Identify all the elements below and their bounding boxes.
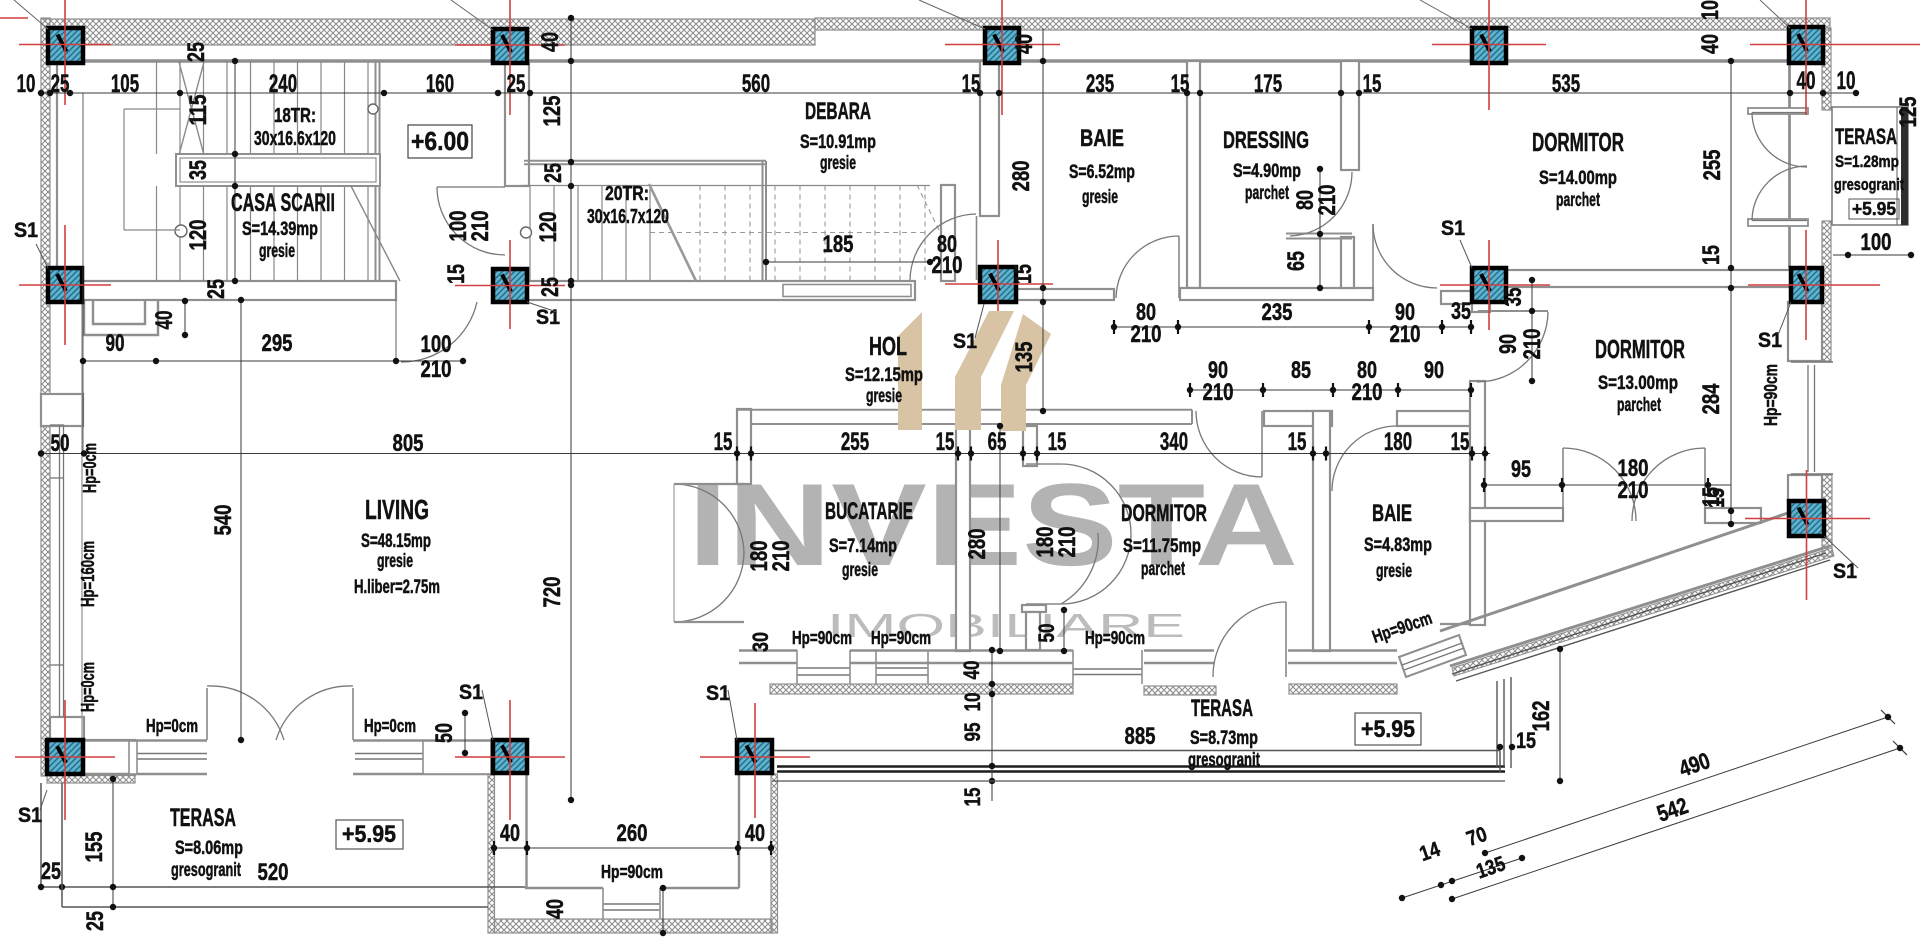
dim vertical 720 (570, 285, 572, 800)
svg-text:gresie: gresie (377, 551, 413, 572)
svg-text:30x16.6x120: 30x16.6x120 (254, 128, 336, 150)
door baie2 (90/210) (1332, 426, 1397, 491)
wall dressing closet upper (1341, 61, 1359, 170)
stair landing rectangles (176, 154, 380, 186)
svg-text:Hp=0cm: Hp=0cm (80, 443, 100, 493)
svg-text:Hp=90cm: Hp=90cm (1761, 364, 1781, 426)
door debara-hol (80/210) (976, 216, 978, 280)
svg-text:18TR:: 18TR: (274, 105, 316, 127)
column axis C6 (19, 284, 111, 286)
svg-text:535: 535 (1552, 70, 1580, 98)
svg-text:Hp=0cm: Hp=0cm (146, 716, 198, 736)
south wall bucatarie/dormitor row (739, 649, 797, 651)
svg-text:40: 40 (151, 311, 178, 330)
leader lines to top columns (14, 0, 48, 29)
wall stairwell 20TR east jog (762, 161, 764, 281)
column axis C12 (455, 756, 565, 758)
svg-text:Hp=160cm: Hp=160cm (78, 541, 98, 607)
svg-text:540: 540 (210, 505, 237, 536)
bay window sill (603, 903, 660, 905)
diagonal dim end ticks (1881, 710, 1895, 724)
dim vertical dressing chain (1319, 169, 1321, 288)
hatch south terrace wall 3 (1289, 684, 1397, 694)
svg-text:15: 15 (962, 70, 981, 98)
svg-text:Hp=0cm: Hp=0cm (364, 716, 416, 736)
svg-text:25: 25 (203, 279, 230, 299)
door casa scarii (100/210) (401, 302, 477, 362)
stair break line upper (179, 62, 204, 155)
column C13 (737, 740, 772, 773)
svg-text:162: 162 (1528, 701, 1555, 732)
wall baie/dressing divider (1187, 61, 1200, 288)
dim vertical dormitor13 door chain (1531, 280, 1533, 382)
dim diagonal 542 (1452, 748, 1900, 899)
svg-text:95: 95 (1511, 456, 1531, 483)
svg-text:S1: S1 (18, 804, 42, 827)
svg-text:40: 40 (1011, 34, 1038, 54)
svg-text:40: 40 (500, 820, 520, 847)
svg-text:520: 520 (258, 859, 289, 886)
svg-text:210: 210 (1519, 329, 1546, 360)
terrace lower thin line (772, 780, 1505, 782)
svg-text:35: 35 (185, 160, 212, 180)
svg-text:210: 210 (1314, 185, 1341, 216)
newel circle casa scarii (175, 225, 187, 237)
svg-text:20TR:: 20TR: (605, 183, 649, 205)
dim vertical 280 kitchen (999, 426, 1001, 651)
svg-text:155: 155 (81, 832, 108, 863)
dim line 185 (766, 261, 930, 263)
bay below living (488, 774, 495, 933)
wall dormitor west lower stub (1026, 612, 1040, 650)
svg-text:340: 340 (1160, 428, 1188, 456)
svg-text:210: 210 (768, 541, 795, 572)
wall baie south west part (1016, 289, 1114, 300)
svg-text:115: 115 (185, 95, 212, 126)
exterior wall top hatch west (41, 19, 815, 45)
svg-text:DORMITOR: DORMITOR (1532, 127, 1624, 157)
svg-text:S1: S1 (1441, 217, 1465, 240)
svg-text:100: 100 (1861, 229, 1892, 256)
svg-text:40: 40 (745, 820, 765, 847)
svg-text:Hp=90cm: Hp=90cm (601, 862, 663, 882)
svg-text:S1: S1 (14, 219, 38, 242)
wall stub west of column C9 (1441, 291, 1472, 304)
svg-text:gresie: gresie (842, 560, 878, 581)
svg-text:S=4.83mp: S=4.83mp (1364, 535, 1432, 556)
terrace floor edge (772, 750, 1500, 752)
svg-text:125: 125 (1895, 97, 1920, 128)
svg-text:TERASA: TERASA (170, 804, 236, 832)
svg-text:10: 10 (17, 70, 36, 98)
svg-text:50: 50 (431, 723, 458, 743)
level +6.00 (408, 125, 472, 158)
column C14 (1789, 501, 1824, 536)
column C4 (1472, 28, 1506, 63)
stair landing rail inner (783, 285, 911, 297)
dim vertical 40 bay (662, 888, 664, 933)
svg-text:25: 25 (537, 277, 564, 297)
svg-text:15: 15 (1698, 245, 1725, 265)
svg-text:gresie: gresie (820, 153, 856, 174)
dim line top row (41, 92, 1856, 94)
svg-text:10: 10 (960, 693, 985, 712)
wall stub below C9 (1472, 302, 1490, 312)
dim 15 terrace corner (1497, 744, 1503, 750)
wall stair south + landing (521, 281, 915, 300)
svg-text:BUCATARIE: BUCATARIE (825, 498, 913, 525)
svg-text:15: 15 (936, 428, 955, 456)
svg-text:S1: S1 (459, 681, 483, 704)
svg-text:S=8.06mp: S=8.06mp (175, 838, 243, 859)
column C11 (47, 740, 83, 774)
dim line baie/dressing row (1114, 326, 1471, 328)
svg-text:gresogranit: gresogranit (1834, 175, 1904, 194)
svg-text:280: 280 (1008, 161, 1035, 192)
stair 18TR risers (156, 61, 158, 154)
svg-text:125: 125 (539, 96, 566, 127)
svg-text:S=48.15mp: S=48.15mp (361, 531, 431, 552)
svg-text:gresogranit: gresogranit (171, 860, 241, 881)
dim line balcony row (1484, 484, 1731, 486)
svg-text:40: 40 (537, 32, 564, 52)
column axis C2 (455, 44, 565, 46)
window sill dormitor south (1073, 668, 1142, 670)
heavy edge line terrace (777, 765, 1505, 768)
svg-text:100: 100 (421, 331, 452, 358)
extension line x83 (82, 93, 84, 454)
dim diagonal 490 (1485, 717, 1888, 853)
svg-text:105: 105 (111, 70, 139, 98)
svg-text:720: 720 (539, 577, 566, 608)
left wall inner face upper (56, 59, 58, 281)
stair 20TR solid risers (529, 186, 531, 282)
door +6.00 room (100/210) (437, 187, 505, 255)
jog to diagonal window (1440, 623, 1470, 625)
svg-text:gresie: gresie (866, 386, 902, 407)
wall bucatarie west upper (737, 409, 751, 484)
terasa east double door (1752, 112, 1807, 114)
svg-text:135: 135 (1011, 342, 1038, 373)
svg-text:S=10.91mp: S=10.91mp (800, 132, 876, 153)
svg-text:S=14.00mp: S=14.00mp (1539, 168, 1617, 189)
dim vertical baie chain (1042, 28, 1044, 411)
wall hol south right part (1264, 411, 1332, 426)
svg-text:30x16.7x120: 30x16.7x120 (587, 206, 669, 228)
svg-text:DEBARA: DEBARA (805, 98, 871, 125)
svg-text:185: 185 (823, 231, 854, 258)
wall hol south long (737, 409, 1192, 411)
diagonal parapet hatch (1452, 548, 1834, 676)
svg-text:85: 85 (1291, 357, 1311, 384)
wall dormitor west upper stub (1023, 426, 1037, 466)
svg-text:BAIE: BAIE (1080, 125, 1124, 152)
living south wall lines (84, 739, 207, 741)
wall dressing south (1180, 288, 1373, 300)
column axis C11 (15, 756, 115, 758)
living west inner face (81, 300, 83, 740)
svg-text:175: 175 (1254, 70, 1282, 98)
svg-text:210: 210 (932, 252, 963, 279)
svg-text:15: 15 (443, 264, 470, 284)
window sill kitchen 1 (797, 667, 850, 669)
diagonal parapet top edge (1440, 513, 1788, 631)
svg-text:120: 120 (535, 212, 562, 243)
right wall solid above C14 (1788, 475, 1822, 501)
dim vertical 540 (240, 300, 242, 740)
door dormitor13 north (90/210) (1477, 312, 1548, 382)
wall pier sw (84, 740, 135, 775)
terrace sw outline (40, 783, 42, 887)
stair arrow diagonal (351, 186, 400, 281)
svg-text:15: 15 (1703, 488, 1730, 508)
column C12 (493, 740, 527, 773)
svg-text:35: 35 (1451, 298, 1471, 325)
wall dormitor13 south west part (1470, 508, 1563, 521)
column C1 (48, 28, 83, 63)
dim vertical 162 (1559, 649, 1561, 781)
svg-text:DRESSING: DRESSING (1223, 127, 1309, 154)
window sill kitchen 2 (876, 667, 928, 669)
window sill living south 1 (135, 753, 207, 755)
svg-text:255: 255 (841, 428, 869, 456)
column C10 (1791, 268, 1822, 302)
svg-text:25: 25 (51, 70, 70, 98)
svg-text:S=13.00mp: S=13.00mp (1598, 373, 1678, 394)
svg-text:65: 65 (1283, 251, 1310, 271)
wall dormitor sw jog cap (1022, 605, 1046, 612)
svg-text:+5.95: +5.95 (1852, 199, 1896, 219)
svg-text:210: 210 (421, 356, 452, 383)
right wall inner face (1788, 60, 1791, 268)
dim line doors row (1190, 389, 1473, 391)
top wall inner face (50, 59, 1790, 62)
svg-text:180: 180 (1384, 428, 1412, 456)
window strip west (59, 425, 61, 717)
svg-text:240: 240 (269, 70, 297, 98)
dim vertical 155 terrace (112, 779, 114, 907)
svg-text:S=6.52mp: S=6.52mp (1069, 162, 1135, 183)
svg-text:25: 25 (183, 42, 210, 62)
svg-text:15: 15 (1048, 428, 1067, 456)
svg-text:210: 210 (1352, 379, 1383, 406)
left wall pier at window head (41, 394, 83, 426)
dim vertical 20TR chain (570, 18, 572, 281)
column axis C3 (945, 44, 1060, 46)
svg-text:gresie: gresie (1376, 561, 1412, 582)
terasa east box (1832, 107, 1908, 225)
svg-text:DORMITOR: DORMITOR (1121, 500, 1207, 527)
wall baie2 east (1470, 381, 1485, 625)
dim vertical 50 dormitor window (1063, 610, 1065, 651)
wall dressing closet lower (1341, 237, 1354, 288)
diagonal window (1399, 635, 1466, 677)
svg-text:30: 30 (748, 632, 773, 652)
door bucatarie french doors (673, 484, 675, 622)
wall +6.00 west (505, 61, 529, 186)
svg-text:TERASA: TERASA (1191, 695, 1253, 722)
door dressing closet (80/210) (1290, 172, 1352, 236)
window east (dormitor13) (1791, 361, 1833, 363)
right wall hatch segments (1822, 28, 1831, 110)
svg-text:90: 90 (1495, 334, 1522, 354)
dim vertical 40/10/95/15 terrace (991, 650, 993, 801)
svg-text:160: 160 (426, 70, 454, 98)
svg-text:210: 210 (1390, 321, 1421, 348)
stair 20TR dashed centerline (650, 232, 928, 234)
watermark logo bar 3 (1001, 314, 1051, 431)
door leaf line dormitor13 north door (1478, 310, 1548, 312)
svg-text:235: 235 (1262, 299, 1293, 326)
stair lower outline (123, 109, 125, 230)
column C3 (985, 28, 1019, 63)
column C5 (1789, 27, 1823, 63)
door baie 6.52 (1178, 236, 1180, 298)
wall living sw corner (50, 717, 84, 741)
svg-text:560: 560 (742, 70, 770, 98)
svg-text:210: 210 (1054, 527, 1081, 558)
wall debara east stub (941, 185, 955, 281)
red mark top-left edge (0, 17, 28, 19)
column C2 (493, 29, 527, 63)
door dormitor terasa (sud) (1285, 602, 1287, 677)
svg-text:15: 15 (960, 788, 985, 807)
svg-text:35: 35 (1500, 288, 1527, 307)
svg-text:S=12.15mp: S=12.15mp (845, 365, 923, 386)
svg-text:15: 15 (1451, 428, 1470, 456)
niche below stairs wall (93, 300, 145, 324)
column C8 (980, 267, 1016, 302)
svg-text:CASA SCARII: CASA SCARII (231, 189, 335, 217)
svg-text:95: 95 (960, 723, 985, 742)
door hol-dormitor (90/210) (1261, 411, 1263, 477)
wall casa scarii south (57, 281, 396, 300)
svg-text:Hp=90cm: Hp=90cm (792, 628, 852, 648)
svg-text:260: 260 (617, 820, 648, 847)
S1 leaders (36, 244, 48, 268)
svg-text:S1: S1 (953, 330, 977, 353)
door dormitor14 (90/210) (1372, 224, 1374, 288)
svg-text:DORMITOR: DORMITOR (1595, 334, 1685, 364)
svg-text:gresie: gresie (259, 241, 295, 262)
svg-text:805: 805 (393, 430, 424, 457)
column axis C7 (455, 285, 565, 287)
svg-text:210: 210 (1203, 379, 1234, 406)
svg-text:65: 65 (988, 428, 1007, 456)
column C7 (493, 269, 527, 302)
svg-text:parchet: parchet (1617, 395, 1661, 416)
stair 20TR break line (649, 184, 696, 281)
dim line 100 right (1833, 254, 1912, 256)
diagonal floor edge (1452, 553, 1826, 674)
svg-text:15: 15 (1516, 728, 1536, 753)
watermark logo bar 1 (898, 312, 922, 430)
column axis C13 (700, 756, 810, 758)
exterior wall left hatch (41, 18, 50, 425)
wall dressing closet shelf (1286, 233, 1352, 235)
terasa east door caps (1748, 108, 1808, 114)
svg-text:15: 15 (1010, 264, 1037, 284)
svg-text:parchet: parchet (1141, 559, 1185, 580)
wall baie2 north (1397, 411, 1470, 426)
door dormitor west doors (1026, 463, 1061, 465)
svg-text:parchet: parchet (1245, 183, 1289, 204)
svg-text:gresogranit: gresogranit (1188, 750, 1260, 771)
wall baie west (980, 61, 999, 216)
watermark logo bar 2 (955, 311, 1014, 430)
hatch south terrace wall 2 (1144, 686, 1216, 695)
stair 20TR dashed risers (699, 186, 701, 281)
dim diagonal 14/70/135 (1402, 858, 1522, 898)
svg-text:50: 50 (51, 430, 70, 457)
dim vertical stairs chain (234, 61, 236, 281)
svg-text:S1: S1 (706, 682, 730, 705)
svg-text:10: 10 (1837, 67, 1856, 95)
svg-text:255: 255 (1699, 150, 1726, 181)
svg-text:H.liber=2.75m: H.liber=2.75m (354, 577, 440, 598)
exterior wall top hatch east (815, 18, 1830, 30)
svg-text:15: 15 (1171, 70, 1190, 98)
svg-text:25: 25 (507, 70, 526, 98)
svg-text:15: 15 (1288, 428, 1307, 456)
svg-text:Hp=0cm: Hp=0cm (78, 662, 98, 712)
svg-text:BAIE: BAIE (1372, 500, 1412, 527)
svg-text:40: 40 (1797, 67, 1816, 95)
column axis C10 (1748, 284, 1880, 286)
svg-text:90: 90 (106, 330, 125, 357)
dim vertical right chain (1730, 61, 1732, 524)
svg-text:Hp=90cm: Hp=90cm (871, 628, 931, 648)
svg-text:LIVING: LIVING (365, 494, 429, 525)
svg-text:235: 235 (1086, 70, 1114, 98)
column axis C4 (1432, 44, 1546, 46)
svg-text:S=7.14mp: S=7.14mp (829, 536, 897, 557)
door living south french doors (206, 688, 208, 740)
left lower hatch (41, 425, 50, 776)
svg-text:280: 280 (964, 529, 991, 560)
stair 20TR dashed break (917, 185, 940, 232)
wall stairwell 20TR north (524, 160, 766, 162)
svg-text:90: 90 (1424, 357, 1444, 384)
svg-text:10: 10 (1697, 0, 1724, 20)
svg-text:+5.95: +5.95 (1361, 716, 1415, 743)
svg-text:50: 50 (1034, 624, 1059, 643)
svg-text:40: 40 (1697, 34, 1724, 54)
svg-text:25: 25 (41, 858, 61, 885)
right wall solid below C10 (1788, 302, 1822, 361)
hatch under sw corner (47, 775, 135, 783)
svg-text:885: 885 (1125, 723, 1156, 750)
wall bucatarie/dormitor divider (956, 426, 970, 651)
svg-text:S=4.90mp: S=4.90mp (1233, 161, 1301, 182)
svg-text:25: 25 (540, 163, 567, 183)
svg-text:+5.95: +5.95 (342, 821, 396, 848)
svg-text:Hp=90cm: Hp=90cm (1085, 628, 1145, 648)
wall dormitor13 south east part (1705, 508, 1761, 523)
svg-text:TERASA: TERASA (1835, 124, 1897, 149)
svg-text:295: 295 (262, 330, 293, 357)
column axis C14 (1745, 518, 1870, 520)
window sill living south 2 (355, 753, 490, 755)
svg-text:40: 40 (959, 661, 984, 680)
wall dormitor14/dormitor13 divider (1506, 270, 1791, 287)
svg-text:25: 25 (82, 911, 109, 931)
dim vertical 50 living door (464, 713, 466, 753)
svg-text:+6.00: +6.00 (411, 126, 469, 156)
svg-text:S=1.28mp: S=1.28mp (1835, 152, 1899, 171)
hatch south terrace wall 1 (770, 684, 1073, 694)
wall dormitor/baie2 divider (1313, 411, 1330, 651)
